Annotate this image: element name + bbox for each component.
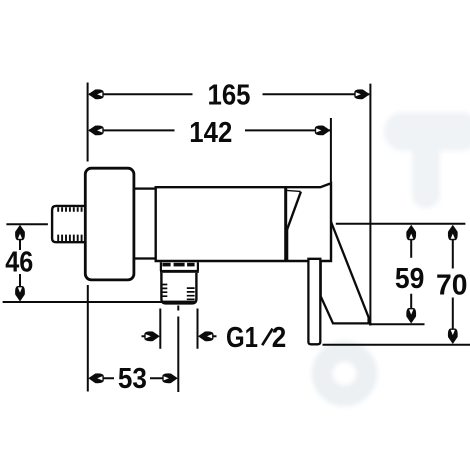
svg-text:165: 165 xyxy=(208,80,251,112)
svg-text:G1: G1 xyxy=(226,322,258,354)
svg-text:142: 142 xyxy=(189,117,232,149)
svg-text:46: 46 xyxy=(5,247,33,279)
svg-text:2: 2 xyxy=(272,322,287,354)
svg-text:70: 70 xyxy=(436,269,468,301)
svg-text:59: 59 xyxy=(395,263,425,295)
svg-text:53: 53 xyxy=(118,363,147,395)
